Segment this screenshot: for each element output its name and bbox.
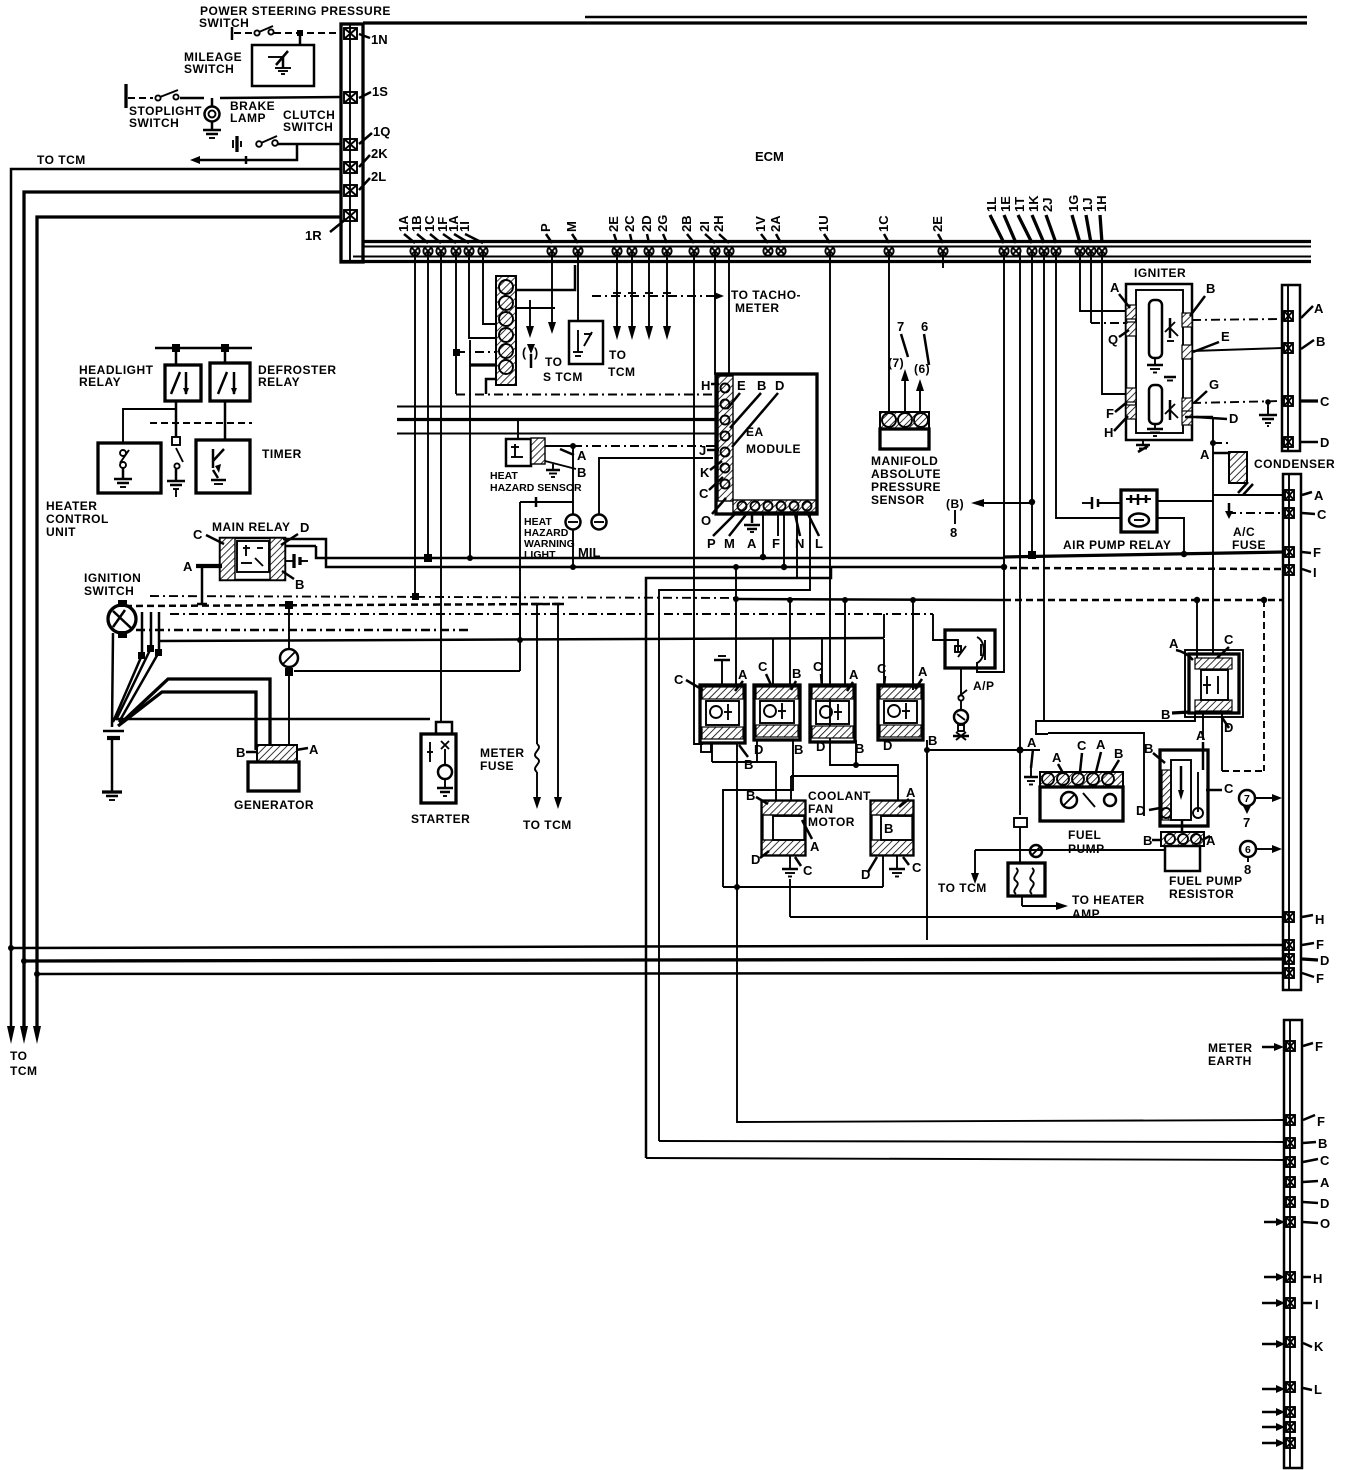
- pin label 2A: [768, 215, 783, 243]
- svg-text:1H: 1H: [1094, 195, 1109, 212]
- svg-text:P: P: [538, 223, 553, 232]
- pin label 1J: [1080, 198, 1095, 243]
- svg-text:RELAY: RELAY: [79, 375, 121, 389]
- label COOLANT FAN MOTOR: [808, 789, 871, 829]
- svg-text:2D: 2D: [639, 215, 654, 232]
- wire 2J descent to air pump relay: [1056, 252, 1121, 518]
- svg-text:C: C: [1317, 507, 1327, 522]
- label 1Q: [359, 124, 390, 144]
- ECM pin 2D: [644, 246, 653, 255]
- label A (inj1): [735, 667, 748, 691]
- label 6: [921, 319, 929, 365]
- svg-text:TCM: TCM: [10, 1064, 38, 1078]
- label P (EA): [707, 512, 737, 551]
- svg-text:FAN: FAN: [808, 802, 834, 816]
- ECM pin 1A: [410, 246, 419, 255]
- generator: [248, 745, 299, 791]
- wire fp relay B: [1036, 713, 1195, 734]
- wire 2G arrow: [663, 252, 671, 340]
- svg-text:TO: TO: [545, 355, 562, 369]
- dash wire heat hazard A to EA J: [573, 445, 716, 447]
- label B (fan1): [746, 788, 768, 804]
- pin F (bottom strip): [1286, 1114, 1325, 1129]
- ECM pin 1K: [1039, 246, 1048, 255]
- label L (EA): [808, 514, 823, 551]
- svg-text:GENERATOR: GENERATOR: [234, 798, 314, 812]
- pin label 1T: [1012, 197, 1032, 243]
- connector strip hatched: [496, 276, 516, 385]
- svg-text:E: E: [737, 378, 746, 393]
- pin label P: [538, 223, 553, 243]
- label M (EA): [724, 512, 748, 551]
- arrow TCM 2: [20, 1026, 28, 1044]
- svg-text:B: B: [884, 821, 893, 836]
- ECM pin 2H: [724, 246, 733, 255]
- svg-text:(7): (7): [888, 356, 904, 370]
- pin H (strip2): [1285, 912, 1324, 927]
- wire inj4 C feed: [883, 639, 885, 685]
- svg-text:O: O: [701, 513, 711, 528]
- svg-text:A: A: [810, 839, 820, 854]
- label B (fuel pump): [1111, 746, 1123, 773]
- fuel pump relay K2: [1185, 650, 1243, 717]
- wire ground bus y850: [975, 845, 1164, 857]
- label D (EA): [732, 378, 784, 447]
- wire 1R to TCM: [37, 217, 341, 1026]
- svg-text:A: A: [1320, 1175, 1330, 1190]
- svg-text:ABSOLUTE: ABSOLUTE: [871, 467, 941, 481]
- ECM pin 1G: [1075, 246, 1084, 255]
- wire fan1 to H line: [789, 879, 791, 917]
- label A2 (fuel pump): [1052, 750, 1063, 773]
- label TO TCM (M box): [608, 348, 636, 379]
- ground at strip C: [1259, 402, 1277, 426]
- svg-text:Q: Q: [1108, 332, 1118, 347]
- svg-text:1E: 1E: [998, 196, 1013, 212]
- svg-text:B: B: [295, 577, 304, 592]
- svg-text:7: 7: [1244, 793, 1250, 805]
- svg-text:TO TACHO-: TO TACHO-: [731, 288, 801, 302]
- MAP sensor: [880, 412, 929, 449]
- condenser C1: [1229, 452, 1253, 495]
- ground (fuel pump): [1024, 768, 1038, 785]
- svg-text:H: H: [701, 378, 710, 393]
- svg-text:TCM: TCM: [608, 365, 636, 379]
- svg-text:C: C: [1320, 1153, 1330, 1168]
- label D (fan2): [861, 857, 877, 882]
- svg-text:2A: 2A: [768, 215, 783, 232]
- label 1S: [359, 84, 388, 99]
- pin label 2E: [930, 216, 945, 243]
- svg-text:A: A: [1196, 728, 1206, 743]
- injector 2: [754, 685, 800, 740]
- ECM pin 2G: [662, 246, 671, 255]
- label C (inj1): [674, 672, 703, 690]
- label A/C FUSE: [1232, 525, 1266, 552]
- label HEAT HAZARD SENSOR: [490, 470, 582, 494]
- ECM pin 2E: [612, 246, 621, 255]
- svg-text:F: F: [1313, 545, 1321, 560]
- svg-text:1K: 1K: [1026, 195, 1041, 212]
- svg-text:TO HEATER: TO HEATER: [1072, 893, 1145, 907]
- svg-text:A: A: [1110, 280, 1120, 295]
- defroster relay: [210, 348, 250, 401]
- pin label 1A: [446, 215, 469, 243]
- svg-text:SENSOR: SENSOR: [871, 493, 925, 507]
- wire EA-F down: [781, 512, 787, 570]
- svg-text:1I: 1I: [457, 221, 472, 232]
- svg-text:PRESSURE: PRESSURE: [871, 480, 941, 494]
- label B (inj1): [739, 745, 753, 772]
- svg-text:C: C: [674, 672, 684, 687]
- pin label 1H: [1094, 195, 1109, 243]
- wire headlight relay down: [167, 401, 185, 497]
- svg-text:D: D: [300, 520, 309, 535]
- long dash line y614 to AP: [170, 614, 958, 652]
- ECM pin M: [573, 246, 582, 255]
- svg-text:D: D: [816, 739, 825, 754]
- ECM pin 1A: [464, 246, 473, 255]
- label B (resistor top): [1144, 741, 1165, 763]
- TO HEATER AMP arrow: [1022, 893, 1145, 921]
- fuel pump M1: [1040, 772, 1123, 821]
- pin label 1C: [422, 215, 441, 243]
- svg-text:B: B: [1144, 741, 1153, 756]
- wire 1B descent: [424, 252, 432, 562]
- svg-text:1N: 1N: [371, 32, 388, 47]
- label BRAKE LAMP: [230, 99, 275, 125]
- ECM pin 1F: [451, 246, 460, 255]
- wire inj1 B long to strip F: [734, 743, 1283, 1122]
- fuel pump resistor R1: [1160, 750, 1208, 826]
- long line y640 injector C feed: [158, 614, 884, 641]
- MAP pin 6 arrow: [916, 379, 924, 412]
- battery: [102, 731, 124, 800]
- svg-text:F: F: [1315, 1039, 1323, 1054]
- ECM connector row lines: [341, 242, 1311, 262]
- svg-text:UNIT: UNIT: [46, 525, 76, 539]
- ECM pin 1B: [423, 246, 432, 255]
- svg-text:): ): [534, 346, 538, 360]
- svg-text:LAMP: LAMP: [230, 111, 266, 125]
- svg-text:E: E: [1221, 329, 1230, 344]
- ECM pin 2A: [776, 246, 785, 255]
- svg-text:CONDENSER: CONDENSER: [1254, 457, 1335, 471]
- label A (condenser wire): [1200, 443, 1229, 462]
- clutch switch: [233, 136, 341, 152]
- wire 1A descent: [412, 252, 419, 600]
- svg-text:A: A: [918, 664, 928, 679]
- svg-text:F: F: [1316, 971, 1324, 986]
- pin F (strip2): [1285, 545, 1321, 560]
- heater control unit: [98, 443, 161, 493]
- label C (fan1): [795, 857, 813, 878]
- svg-text:7: 7: [1243, 815, 1250, 830]
- pin D (strip2): [1285, 953, 1329, 968]
- svg-text:F: F: [1106, 406, 1114, 421]
- svg-text:C: C: [1224, 781, 1234, 796]
- svg-text:B: B: [236, 745, 245, 760]
- symbol (6) arrow: [1240, 841, 1282, 877]
- label POWER STEERING PRESSURE SWITCH: [199, 4, 391, 30]
- wire fp relay B branch 2: [1048, 733, 1160, 818]
- heat hazard sensor: [506, 438, 545, 466]
- svg-text:SWITCH: SWITCH: [184, 62, 234, 76]
- wire defroster relay to timer: [224, 401, 227, 440]
- pin label 1C: [876, 215, 891, 243]
- MIL lamp: [592, 458, 714, 530]
- wire air pump relay right: [1157, 500, 1213, 502]
- svg-text:B: B: [1161, 707, 1170, 722]
- svg-text:C: C: [912, 860, 922, 875]
- svg-text:8: 8: [950, 525, 957, 540]
- svg-text:C: C: [1077, 738, 1087, 753]
- pin label 1I: [457, 221, 483, 243]
- wire y554 to strip F: [1004, 552, 1283, 557]
- wire bundle to y679: [120, 679, 270, 745]
- ECM pin 1C: [436, 246, 445, 255]
- label METER FUSE: [480, 746, 525, 773]
- svg-text:TO TCM: TO TCM: [523, 818, 572, 832]
- label MILEAGE SWITCH: [184, 50, 242, 76]
- wire N line to strip C: [646, 1158, 1284, 1160]
- label HEADLIGHT RELAY: [79, 363, 154, 389]
- label F (EA): [772, 512, 780, 551]
- svg-text:TIMER: TIMER: [262, 447, 302, 461]
- heat hazard warning light: [566, 446, 581, 570]
- svg-text:A: A: [1027, 735, 1037, 750]
- wire 1J descent to igniter Q: [1091, 252, 1126, 323]
- ground (heat hazard): [546, 464, 560, 477]
- svg-text:1J: 1J: [1080, 198, 1095, 212]
- svg-text:F: F: [1316, 937, 1324, 952]
- label D (fan1): [751, 851, 769, 867]
- wire heater top link: [123, 409, 176, 443]
- pin A (strip2): [1285, 488, 1324, 503]
- wire warning light feed: [517, 497, 573, 643]
- svg-text:B: B: [1318, 1136, 1327, 1151]
- svg-text:1C: 1C: [876, 215, 891, 232]
- label C (fan2): [903, 857, 922, 875]
- pin A (strip1): [1284, 301, 1324, 321]
- svg-text:TO: TO: [609, 348, 626, 362]
- svg-text:K: K: [700, 465, 710, 480]
- label A (main relay): [183, 559, 222, 574]
- svg-text:A: A: [906, 785, 916, 800]
- svg-text:B: B: [1206, 281, 1215, 296]
- svg-text:A/C: A/C: [1233, 525, 1255, 539]
- pin label 1B: [409, 215, 428, 243]
- igniter mid ground: [1164, 377, 1176, 381]
- wire 1C descent to MAP: [888, 252, 890, 413]
- wire P descent: [548, 252, 556, 334]
- label C (inj3): [813, 659, 823, 687]
- label C (inj4): [877, 661, 887, 687]
- svg-text:O: O: [1320, 1216, 1330, 1231]
- svg-text:2I: 2I: [697, 221, 712, 232]
- svg-text:HAZARD SENSOR: HAZARD SENSOR: [490, 482, 582, 494]
- svg-text:TO TCM: TO TCM: [37, 153, 86, 167]
- svg-text:SWITCH: SWITCH: [129, 116, 179, 130]
- wire fp relay to resistor A: [1202, 713, 1204, 740]
- svg-text:CONTROL: CONTROL: [46, 512, 109, 526]
- capacitor (air pump): [1082, 497, 1121, 509]
- svg-text:A: A: [1096, 737, 1106, 752]
- svg-text:2J: 2J: [1040, 198, 1055, 212]
- pin label 2H: [711, 215, 729, 243]
- wire 2H descent: [728, 252, 730, 375]
- svg-text:H: H: [1315, 912, 1324, 927]
- arrow TCM 1: [7, 1026, 15, 1044]
- svg-text:D: D: [775, 378, 784, 393]
- pin 1N: [344, 28, 357, 39]
- wire igniter G to strip C: [1192, 399, 1282, 405]
- TO TCM box (M): [569, 321, 603, 364]
- wire 1L descent: [977, 252, 1004, 672]
- svg-text:(6): (6): [914, 362, 930, 376]
- pin O (bottom strip): [1264, 1216, 1330, 1231]
- label TO S TCM: [543, 355, 583, 384]
- svg-text:A/P: A/P: [973, 679, 995, 693]
- svg-text:1U: 1U: [816, 215, 831, 232]
- wire 1U descent to fan2: [830, 252, 898, 803]
- svg-text:B: B: [1143, 833, 1152, 848]
- wire L line to strip B: [659, 1141, 1284, 1142]
- wire igniter D: [1185, 417, 1216, 654]
- label MANIFOLD ABSOLUTE PRESSURE SENSOR: [871, 454, 941, 507]
- svg-text:D: D: [1229, 411, 1238, 426]
- label D (fp relay): [1221, 716, 1233, 735]
- label DEFROSTER RELAY: [258, 363, 337, 389]
- wire air pump relay to y554: [1157, 518, 1187, 557]
- label A (inj4): [915, 664, 928, 689]
- svg-text:A: A: [1314, 488, 1324, 503]
- pin D (strip1): [1284, 435, 1329, 450]
- right strip segment 1: [1282, 285, 1300, 451]
- connector strip J1: [341, 24, 363, 262]
- svg-text:TO: TO: [10, 1049, 27, 1063]
- label B (heat hazard): [545, 461, 586, 480]
- svg-text:D: D: [751, 852, 760, 867]
- svg-text:D: D: [1320, 953, 1329, 968]
- wire M descent: [577, 252, 579, 321]
- mileage switch: [252, 45, 314, 86]
- svg-text:8: 8: [1244, 862, 1251, 877]
- svg-text:2G: 2G: [655, 215, 670, 232]
- ECM pin 1U: [825, 246, 834, 255]
- label TO TACHO-METER: [731, 288, 801, 315]
- label B (igniter): [1190, 281, 1215, 316]
- svg-text:1V: 1V: [753, 216, 768, 232]
- label C (inj2): [758, 659, 772, 687]
- svg-text:2H: 2H: [711, 215, 726, 232]
- pin F3 (strip2): [1285, 968, 1324, 986]
- A/P valve: [945, 630, 995, 668]
- power steering pressure switch symbol: [232, 26, 341, 40]
- svg-text:C: C: [758, 659, 768, 674]
- svg-text:MAIN RELAY: MAIN RELAY: [212, 520, 291, 534]
- svg-text:D: D: [754, 742, 763, 757]
- ECM pin 2J: [1051, 246, 1060, 255]
- long dash line y607: [125, 604, 560, 606]
- svg-text:G: G: [1209, 377, 1219, 392]
- pin label 2C: [622, 215, 637, 243]
- svg-text:2K: 2K: [371, 146, 388, 161]
- wire strip bottom feed: [467, 340, 496, 561]
- ECM pin 2E: [938, 246, 947, 255]
- label D (igniter): [1196, 411, 1238, 426]
- pin K (bottom strip): [1262, 1337, 1324, 1354]
- lines to EA module left pins: [397, 407, 716, 434]
- svg-text:HEAT: HEAT: [490, 470, 518, 482]
- ECM pin 1T: [1027, 246, 1036, 255]
- pin C (strip1): [1284, 394, 1330, 409]
- label G (igniter): [1194, 377, 1219, 403]
- svg-text:A: A: [183, 559, 193, 574]
- ground (fan1): [782, 855, 798, 877]
- svg-text:A: A: [738, 667, 748, 682]
- label A (heat hazard): [545, 443, 587, 463]
- ECM pin 1C: [884, 246, 893, 255]
- ECM pin 1V: [763, 246, 772, 255]
- svg-text:A: A: [1200, 447, 1210, 462]
- pin label 2E: [606, 216, 621, 243]
- label B (generator): [236, 745, 258, 760]
- label 2K: [359, 146, 388, 167]
- label 2L: [359, 169, 386, 190]
- wire 2I descent: [714, 252, 716, 375]
- svg-text:A: A: [1314, 301, 1324, 316]
- ECM pin 2C: [627, 246, 636, 255]
- svg-text:AIR PUMP RELAY: AIR PUMP RELAY: [1063, 538, 1171, 552]
- pin I (bottom strip): [1262, 1297, 1319, 1312]
- svg-text:2L: 2L: [371, 169, 386, 184]
- wire H line to strip: [790, 916, 1285, 918]
- wire main relay D-line: [283, 539, 1004, 567]
- wire fp relay A feed: [1194, 597, 1200, 658]
- MAP pin 7 arrow: [901, 369, 909, 412]
- svg-text:B: B: [794, 742, 803, 757]
- wire 2K to TCM: [11, 169, 341, 1026]
- label A (resistor top): [1196, 728, 1206, 770]
- pin D (bottom strip): [1286, 1196, 1329, 1211]
- label A (fan2): [899, 785, 916, 807]
- ECM pin 1J: [1086, 246, 1095, 255]
- label B (resistor lower): [1143, 833, 1162, 848]
- igniter bottom ground: [1136, 440, 1150, 452]
- label (B) arrow: [946, 497, 1032, 511]
- pin arrow 3 (bottom strip): [1262, 1438, 1295, 1448]
- svg-text:C: C: [877, 661, 887, 676]
- svg-text:SWITCH: SWITCH: [199, 16, 249, 30]
- ground (inj1): [714, 656, 730, 685]
- igniter U2: [1126, 284, 1192, 440]
- label C (resistor right): [1206, 781, 1234, 796]
- wire ECM top border upper: [585, 16, 1307, 19]
- svg-text:AMP: AMP: [1072, 907, 1100, 921]
- label IGNITION SWITCH: [84, 571, 141, 598]
- label K (EA): [700, 461, 722, 480]
- svg-text:C: C: [193, 527, 203, 542]
- svg-text:D: D: [1136, 803, 1145, 818]
- wire 1A2 descent: [469, 252, 496, 338]
- dash wire battery to starter: [112, 718, 430, 721]
- wire inj1 D drop: [711, 743, 713, 762]
- wire fan2 D link: [882, 855, 884, 887]
- wire 1C descent to starter: [440, 252, 442, 722]
- wire EA-L reroute: [659, 512, 810, 1141]
- svg-text:P: P: [707, 536, 716, 551]
